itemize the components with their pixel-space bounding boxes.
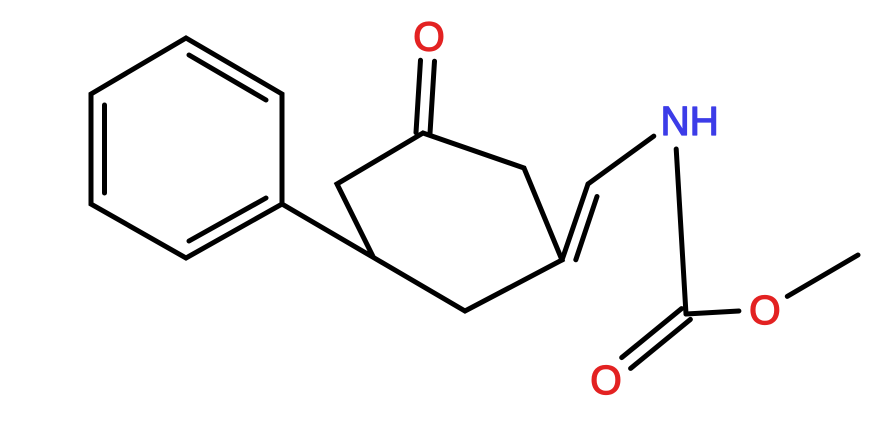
- svg-text:O: O: [749, 287, 781, 333]
- svg-text:O: O: [413, 13, 445, 59]
- svg-text:O: O: [590, 357, 622, 403]
- svg-text:NH: NH: [660, 98, 719, 144]
